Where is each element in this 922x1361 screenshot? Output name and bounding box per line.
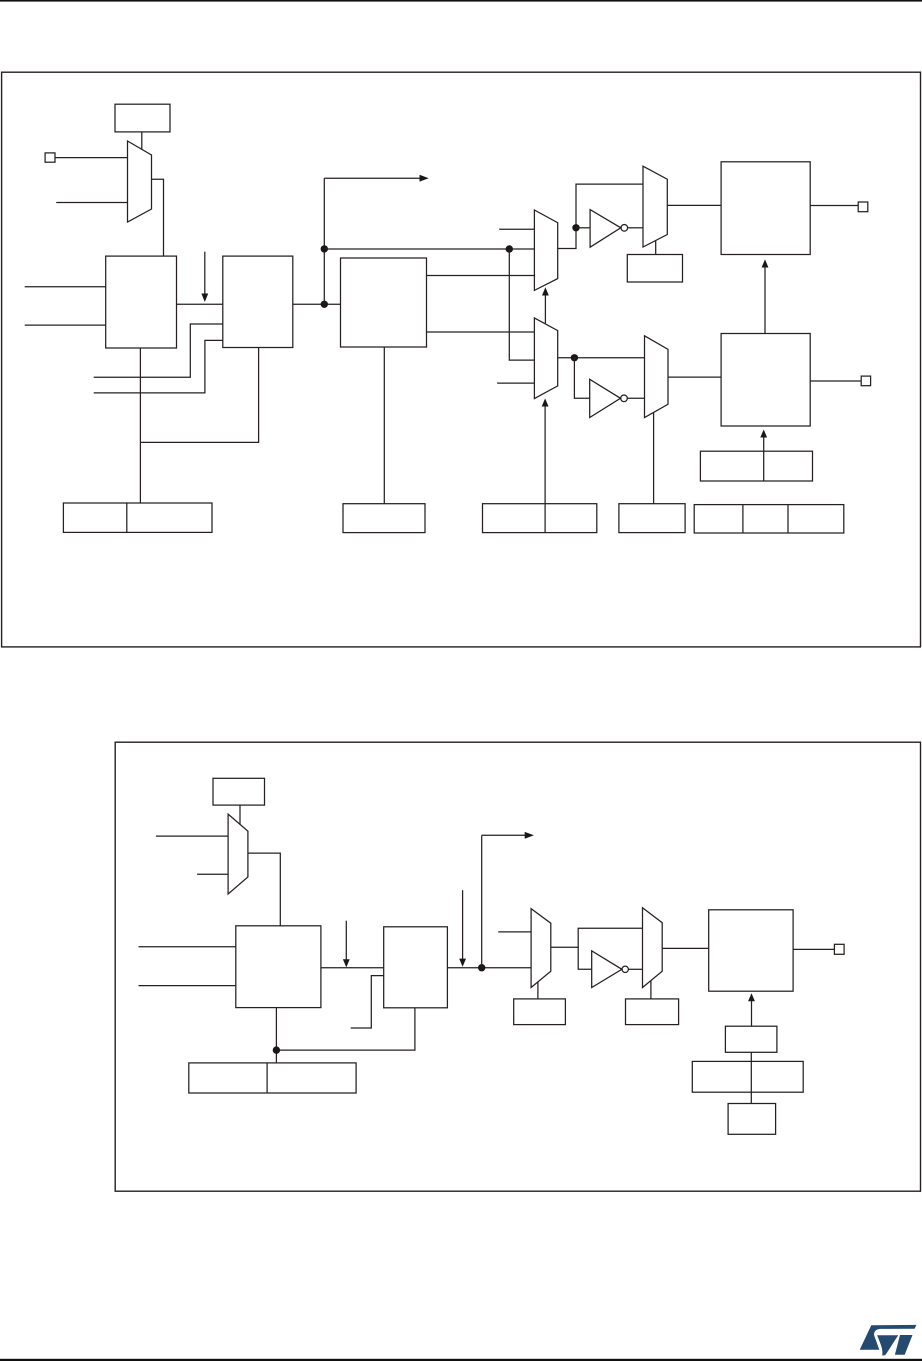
pad square OC1N [861, 376, 870, 386]
mux M1 [128, 141, 152, 222]
wire mux M8 output to box U3 [662, 947, 709, 949]
node J2 [321, 245, 328, 252]
register R7 [700, 451, 812, 481]
inverter G1 bubble [621, 225, 628, 232]
wire step input a of box B2 [94, 324, 223, 377]
arrow register R7 to box U2 [760, 430, 767, 482]
wire mux M2 input 1 [499, 228, 534, 230]
wire node J3 down to mux M3 [509, 249, 534, 360]
arrow register R11 to box U3 [748, 993, 755, 1026]
arrow to master mode controller 2 [482, 832, 534, 839]
inverter G1 [590, 210, 621, 248]
box U3 output control [709, 910, 793, 991]
inverter G2 bubble [621, 395, 628, 402]
node J5 [571, 354, 578, 361]
wire step input b of box B2 [94, 340, 223, 393]
wire mux M6 output to box B4 [248, 853, 280, 926]
wire box B3 bottom to register R2 [383, 347, 385, 504]
wire box B4 bottom to register R8 [275, 1008, 277, 1063]
mux M6 [228, 814, 248, 894]
wire box B3 output 1 [427, 275, 535, 277]
mux M4 output enable [643, 166, 667, 247]
register R3 divider [544, 504, 546, 533]
wire node J2 to mux M2 [324, 248, 534, 250]
register R4 [627, 255, 682, 283]
arrow select mux M2 [542, 287, 549, 323]
wire mux M5 select to register R5 [653, 412, 655, 503]
box B2 counter [223, 256, 293, 347]
node J7 [273, 1046, 280, 1053]
wire box B2 to box B3 [293, 303, 341, 305]
wire node J4 to inverter G1 [576, 227, 590, 229]
bottom page rule [0, 1359, 922, 1361]
register R5 [619, 504, 685, 533]
wire inverter G2 to mux M5 [627, 397, 644, 399]
wire box B2 bottom output [140, 348, 258, 443]
arrow down onto wire 3 [459, 890, 466, 967]
mux M5 output enable [645, 336, 669, 418]
register R8 divider [266, 1063, 268, 1093]
register R2 [343, 504, 425, 533]
inverter G3 bubble [622, 966, 628, 972]
wire step input of box B5 [351, 976, 384, 1028]
wire box B4 input 1 [139, 946, 236, 948]
figure 2 frame [115, 742, 920, 1191]
wire node J5 down to inverter G2 [574, 358, 589, 399]
wire CCMR2 to mux M6 [239, 805, 241, 825]
wire box B1 bottom to register R1 [139, 348, 141, 503]
ST logo [860, 1325, 917, 1356]
arrow to master mode controller [324, 175, 428, 182]
wire mux M5 output to box U2 [668, 376, 721, 378]
register box CCMR1 [115, 104, 170, 132]
node J4 [572, 224, 579, 231]
pad square TI1 [45, 153, 55, 162]
top page rule [0, 0, 922, 2]
wire box B3 output 2 [427, 331, 535, 333]
box B5 counter [384, 927, 448, 1008]
wire box B5 to mux M7 [447, 967, 531, 969]
register R13 [728, 1104, 776, 1135]
wire mux M6 input 2 [197, 873, 228, 875]
register box CCMR2 [213, 778, 265, 805]
wire inverter G1 to mux M4 [628, 227, 643, 229]
wire mux M7 select to register R9 [537, 982, 539, 999]
wire box B1 input 1 [25, 286, 106, 288]
wire mux M3 output to mux M5 [558, 357, 645, 359]
mux M2 [534, 210, 557, 290]
wire mux M6 input 1 [156, 835, 228, 837]
wire box B1 to box B2 [177, 303, 223, 305]
register R6 divider 1 [742, 505, 744, 533]
wire box U1 to pad OC1 [810, 205, 858, 207]
register R1 [63, 503, 212, 532]
wire mux M3 input 3 [497, 382, 534, 384]
wire box B5 bottom output [276, 1008, 415, 1050]
register R6 divider 2 [787, 505, 789, 533]
wire mux M7 input 1 [498, 931, 531, 933]
mux M8 output enable [643, 908, 663, 988]
wire box B1 input 2 [25, 324, 106, 326]
wire box U2 to pad OC1N [810, 380, 861, 382]
register R8 [189, 1063, 356, 1093]
wire box B4 input 2 [139, 985, 236, 987]
register R3 [483, 504, 597, 533]
register R12 [692, 1061, 803, 1092]
box U2 output control [721, 334, 810, 427]
wire mux M1 input 2 [56, 202, 127, 204]
register R1 divider [126, 503, 128, 532]
wire register R11 to register R13 [750, 1052, 752, 1103]
wire node J6 up [481, 835, 483, 967]
wire box U3 to pad OC2 [793, 948, 834, 950]
arrow box U2 to box U1 [762, 259, 769, 333]
register R10 [626, 999, 679, 1025]
box B4 prescaler [236, 926, 321, 1008]
wire node J1 up [323, 178, 325, 304]
node J6 [478, 964, 485, 971]
node J3 [506, 245, 513, 252]
figure 1 frame [2, 72, 921, 647]
box B1 prescaler [106, 256, 177, 348]
wire inverter G3 to mux M8 [628, 968, 642, 970]
wire mux M1 output to box B1 [152, 179, 164, 256]
wire mux M8 select to register R10 [650, 981, 652, 999]
arrow select mux M3 [542, 398, 549, 503]
inverter G2 [590, 379, 621, 417]
arrow down onto wire 2 [343, 921, 350, 968]
wire split down to inverter G3 [578, 947, 592, 969]
pad square OC1 [858, 202, 868, 212]
register R9 [514, 999, 566, 1025]
wire mux M4 output to box U1 [667, 204, 721, 206]
wire mux M2 output [558, 184, 643, 248]
mux M7 [531, 909, 551, 988]
node J1 [321, 301, 328, 308]
wire mux M7 output split [551, 928, 643, 947]
wire mux M4 select to register R4 [655, 241, 657, 255]
register R6 [694, 505, 844, 533]
mux M3 [534, 318, 557, 399]
wire box B4 to box B5 [321, 967, 384, 969]
pad square OC2 [834, 944, 844, 954]
inverter G3 [592, 951, 622, 988]
box B3 output mode controller [341, 258, 427, 347]
wire pad to mux M1 input [55, 157, 128, 159]
box U1 output control [721, 162, 810, 255]
wire CCMR1 to mux M1 [141, 132, 143, 150]
arrow down onto wire [201, 252, 208, 302]
register R11 [725, 1026, 777, 1052]
